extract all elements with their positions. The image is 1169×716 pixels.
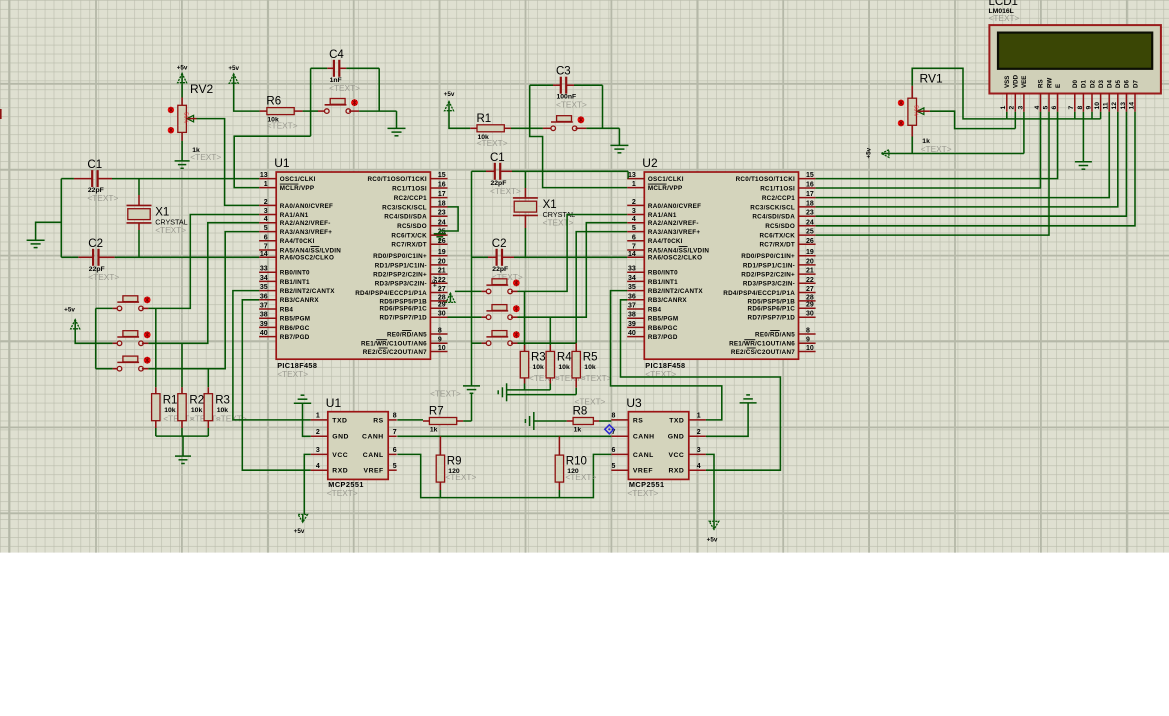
- svg-text:17: 17: [438, 191, 446, 198]
- svg-text:RD7/PSP7/P1D: RD7/PSP7/P1D: [748, 315, 796, 322]
- resistor R7 1k: [429, 406, 457, 434]
- capacitor C1 22pF (U2): [490, 152, 521, 196]
- svg-text:RD0/PSP0/C1IN+: RD0/PSP0/C1IN+: [741, 253, 795, 260]
- svg-text:D4: D4: [1107, 80, 1114, 88]
- microcontroller U2 PIC18F458 pin 18 RC3/SCK/SCL: [750, 200, 815, 211]
- microcontroller U1 PIC18F458 pin 23 RC4/SDI/SDA: [384, 210, 447, 221]
- svg-text:+5v: +5v: [866, 147, 873, 158]
- svg-text:OSC1/CLKI: OSC1/CLKI: [648, 176, 684, 183]
- CAN transceiver U3 MCP2551 pin 7 CANH: [611, 429, 654, 441]
- svg-text:MCLR/VPP: MCLR/VPP: [280, 185, 315, 192]
- microcontroller U1 PIC18F458 pin 33 RB0/INT0: [259, 266, 310, 277]
- R1 top lead: [155, 308, 157, 393]
- svg-text:4: 4: [697, 463, 701, 470]
- wire MCP U1 RS to R7: [397, 419, 423, 421]
- microcontroller U1 PIC18F458 pin 30 RD7/PSP7/P1D: [379, 311, 447, 322]
- svg-text:D1: D1: [1081, 80, 1088, 88]
- wire button3 to U1 RA3: [142, 232, 259, 369]
- svg-text:C2: C2: [492, 238, 507, 250]
- svg-text:3: 3: [316, 447, 320, 454]
- RV1 top pin wire to LCD VSS: [912, 68, 1007, 119]
- R7 left pin: [423, 420, 429, 422]
- microcontroller U2 PIC18F458 pin 19 RD0/PSP0/C1IN+: [741, 249, 815, 260]
- CAN transceiver U1 MCP2551 pin 1 TXD: [311, 413, 348, 425]
- svg-text:35: 35: [628, 284, 636, 291]
- svg-text:RB4: RB4: [280, 306, 294, 313]
- wire LCD RW to U2 RC6: [816, 112, 1049, 235]
- svg-text:29: 29: [438, 302, 446, 309]
- svg-text:10k: 10k: [584, 364, 596, 371]
- svg-text:RD3/PSP3/C2IN-: RD3/PSP3/C2IN-: [743, 281, 795, 288]
- svg-text:U1: U1: [274, 156, 290, 170]
- svg-text:RD1/PSP1/C1IN-: RD1/PSP1/C1IN-: [375, 262, 427, 269]
- microcontroller U2 PIC18F458 pin 7 RA5/AN4/SS/LVDIN: [627, 244, 709, 255]
- microcontroller U2 PIC18F458 pin 23 RC4/SDI/SDA: [752, 210, 815, 221]
- svg-text:14: 14: [628, 251, 636, 258]
- svg-text:28: 28: [806, 294, 814, 301]
- svg-text:35: 35: [260, 284, 268, 291]
- ground at U1 oscillator: [27, 239, 45, 241]
- svg-text:RE1/WR/C1OUT/AN6: RE1/WR/C1OUT/AN6: [729, 341, 795, 348]
- svg-text:+5v: +5v: [432, 276, 439, 287]
- LCD1 pin 4 RS: [1034, 79, 1045, 111]
- svg-text:RC5/SDO: RC5/SDO: [397, 223, 427, 230]
- microcontroller U2 PIC18F458 pin 16 RC1/T1OSI: [760, 182, 815, 193]
- wire U1 RD7 to U2 button2: [448, 316, 487, 318]
- C4 right lead: [339, 67, 379, 69]
- svg-text:20: 20: [438, 258, 446, 265]
- wire U2 reset button right to ground: [576, 127, 620, 129]
- RV1 value label: [921, 138, 952, 154]
- microcontroller U2 PIC18F458 pin 9 RE1/WR/C1OUT/AN6: [729, 337, 816, 348]
- power terminal +5v at U1 RD5: [432, 276, 455, 303]
- CAN transceiver U3 MCP2551 pin 1 TXD: [669, 413, 706, 425]
- wire U2 CANRX to U3 RXD: [621, 300, 781, 470]
- microcontroller U1 PIC18F458 pin 21 RD2/PSP2/C2IN+: [373, 268, 447, 279]
- svg-text:+5v: +5v: [444, 91, 455, 98]
- microcontroller U1 PIC18F458 pin 6 RA4/T0CKI: [259, 234, 314, 245]
- svg-text:19: 19: [806, 249, 814, 256]
- push button U2 input 1: [486, 279, 519, 294]
- svg-text:28: 28: [438, 294, 446, 301]
- push button U1 input 3: [117, 356, 150, 371]
- ground above U3: [740, 402, 757, 404]
- svg-text:8: 8: [611, 413, 615, 420]
- svg-text:<TEXT>: <TEXT>: [565, 472, 596, 482]
- microcontroller U2 PIC18F458 pin 33 RB0/INT0: [627, 266, 678, 277]
- wire LCD VDD down: [1014, 112, 1016, 129]
- wire rail to button 1: [96, 307, 117, 309]
- wire button2 to U1 RA2: [142, 223, 259, 344]
- svg-text:RC5/SDO: RC5/SDO: [765, 223, 795, 230]
- svg-text:LCD1: LCD1: [989, 0, 1018, 8]
- svg-text:RA5/AN4/SS/LVDIN: RA5/AN4/SS/LVDIN: [280, 247, 341, 254]
- R2 top lead: [181, 343, 183, 393]
- wire +5v down to R1: [449, 111, 470, 129]
- microcontroller U2 PIC18F458 pin 37 RB4: [627, 303, 661, 314]
- microcontroller U1 PIC18F458 pin 36 RB3/CANRX: [259, 293, 319, 304]
- svg-text:RD3/PSP3/C2IN-: RD3/PSP3/C2IN-: [375, 281, 427, 288]
- svg-text:RB0/INT0: RB0/INT0: [648, 270, 678, 277]
- power terminal +5v at RV1: [866, 147, 889, 158]
- svg-text:RC3/SCK/SCL: RC3/SCK/SCL: [382, 204, 427, 211]
- LCD1 LM016L display body: [989, 0, 1161, 93]
- svg-text:22: 22: [806, 277, 814, 284]
- svg-text:R10: R10: [566, 455, 587, 467]
- X1 top pin wire: [138, 179, 140, 206]
- power terminal +5v at U1 buttons: [64, 307, 80, 329]
- ground under LCD D1: [1075, 161, 1092, 163]
- microcontroller U1 PIC18F458 pin 38 RB5/PGM: [259, 312, 310, 323]
- svg-text:<TEXT>: <TEXT>: [190, 152, 221, 162]
- svg-text:C4: C4: [329, 49, 344, 61]
- wire U2 button3 to R5: [511, 342, 576, 344]
- microcontroller U1 PIC18F458 pin 26 RC7/RX/DT: [391, 238, 447, 249]
- svg-text:13: 13: [628, 172, 636, 179]
- svg-text:<TEXT>: <TEXT>: [329, 83, 360, 93]
- svg-text:27: 27: [438, 286, 446, 293]
- power terminal +5v at RV2: [177, 65, 188, 83]
- svg-text:RD6/PSP6/P1C: RD6/PSP6/P1C: [748, 306, 796, 313]
- svg-text:D0: D0: [1072, 80, 1079, 88]
- svg-text:1: 1: [1000, 106, 1007, 110]
- svg-text:<TEXT>: <TEXT>: [556, 100, 587, 110]
- ground under pulldowns: [175, 455, 191, 457]
- LCD1 pin 5 RW: [1042, 78, 1053, 112]
- CAN transceiver U1 MCP2551 pin 4 RXD: [311, 463, 348, 475]
- wire LCD VSS D0-D3 rail: [1007, 118, 1101, 120]
- crystal X1: [127, 205, 188, 235]
- ground at U2 reset: [610, 144, 628, 146]
- R3 top lead: [207, 369, 209, 394]
- svg-text:RB2/INT2/CANTX: RB2/INT2/CANTX: [648, 288, 703, 295]
- svg-text:RC7/RX/DT: RC7/RX/DT: [391, 242, 427, 249]
- microcontroller U1 PIC18F458 pin 25 RC6/TX/CK: [391, 229, 447, 240]
- R9 top lead: [439, 436, 441, 455]
- microcontroller U2 PIC18F458 pin 17 RC2/CCP1: [762, 191, 816, 202]
- svg-text:RC1/T1OSI: RC1/T1OSI: [392, 185, 427, 192]
- C1 right lead wire to U1 OSC1: [98, 178, 260, 180]
- wire LCD D4 to U2 RC2: [816, 112, 1110, 198]
- svg-text:+5v: +5v: [707, 537, 718, 544]
- wire +5v to RV2 top: [181, 83, 183, 98]
- wire LCD D3 down: [1100, 112, 1102, 119]
- ground rotated at U2 pulldowns: [498, 383, 506, 401]
- svg-text:CANH: CANH: [633, 434, 655, 441]
- wire button right to C4 right and ground: [349, 110, 397, 112]
- push button U1 input 1: [117, 296, 150, 311]
- wire +5v to U2 button1: [455, 290, 486, 292]
- svg-text:14: 14: [1128, 102, 1135, 110]
- wire U1 RC3 to ground: [440, 207, 458, 231]
- svg-text:RD6/PSP6/P1C: RD6/PSP6/P1C: [379, 306, 427, 313]
- svg-text:D5: D5: [1115, 80, 1122, 88]
- microcontroller U2 PIC18F458 pin 10 RE2/CS/C2OUT/AN7: [731, 345, 816, 356]
- sheet left margin line: [8, 0, 10, 553]
- svg-text:6: 6: [632, 234, 636, 241]
- svg-text:U3: U3: [626, 396, 642, 410]
- CAN transceiver U3 MCP2551 pin 5 VREF: [611, 463, 653, 475]
- potentiometer RV2 1k: [168, 82, 214, 133]
- wire LCD VEE down: [1023, 112, 1025, 154]
- svg-text:22: 22: [438, 277, 446, 284]
- wire U2 button2 to U2 RA2: [511, 223, 627, 318]
- svg-text:39: 39: [628, 321, 636, 328]
- resistor R1 10k: [152, 394, 178, 421]
- svg-text:RC3/SCK/SCL: RC3/SCK/SCL: [750, 204, 795, 211]
- microcontroller U1 PIC18F458 pin 4 RA2/AN2/VREF-: [259, 216, 331, 227]
- svg-text:26: 26: [806, 238, 814, 245]
- LCD1 pin 1 VSS: [1000, 76, 1011, 112]
- svg-text:4: 4: [1034, 106, 1041, 110]
- svg-text:10k: 10k: [558, 364, 570, 371]
- wire +5v down to R6: [234, 83, 260, 111]
- LCD1 pin 13 D6: [1120, 80, 1131, 112]
- svg-text:3: 3: [264, 208, 268, 215]
- svg-text:3: 3: [632, 208, 636, 215]
- LCD1 pin 3 VEE: [1017, 76, 1028, 112]
- microcontroller U2 PIC18F458 pin 36 RB3/CANRX: [627, 293, 687, 304]
- microcontroller U1 PIC18F458 pin 19 RD0/PSP0/C1IN+: [373, 249, 447, 260]
- RV1 wiper wire to LCD VDD: [917, 108, 1016, 129]
- svg-text:RB2/INT2/CANTX: RB2/INT2/CANTX: [280, 288, 335, 295]
- R10 bottom lead: [558, 482, 560, 498]
- svg-text:GND: GND: [668, 434, 685, 441]
- svg-text:10k: 10k: [533, 364, 545, 371]
- svg-text:10: 10: [438, 345, 446, 352]
- potentiometer RV1 1k: [898, 72, 943, 127]
- R1 bottom lead: [155, 421, 157, 436]
- svg-text:9: 9: [806, 337, 810, 344]
- svg-text:RA6/OSC2/CLKO: RA6/OSC2/CLKO: [648, 255, 702, 262]
- resistor R3 10k: [204, 394, 230, 421]
- capacitor C3 100nF: [556, 66, 587, 110]
- wire rail to U2 button3: [472, 342, 487, 344]
- svg-text:15: 15: [806, 172, 814, 179]
- microcontroller U2 PIC18F458 pin 8 RE0/RD/AN5: [755, 328, 816, 339]
- svg-text:R3: R3: [215, 394, 230, 406]
- svg-text:40: 40: [628, 330, 636, 337]
- svg-text:RC2/CCP1: RC2/CCP1: [762, 195, 795, 202]
- svg-text:39: 39: [260, 321, 268, 328]
- wire rail to button 2: [96, 342, 117, 344]
- LCD1 pin 9 D2: [1085, 80, 1096, 112]
- svg-text:<TEXT>: <TEXT>: [88, 272, 119, 282]
- svg-text:23: 23: [438, 210, 446, 217]
- svg-text:RS: RS: [373, 417, 383, 424]
- svg-text:10: 10: [806, 345, 814, 352]
- svg-text:RC6/TX/CK: RC6/TX/CK: [391, 233, 427, 240]
- wire +5v stem to button row 2: [75, 329, 96, 344]
- svg-text:<TEXT>: <TEXT>: [87, 193, 118, 203]
- svg-text:RW: RW: [1046, 78, 1053, 88]
- svg-text:RB4: RB4: [648, 306, 662, 313]
- microcontroller U1 PIC18F458 pin 22 RD3/PSP3/C2IN-: [375, 277, 448, 288]
- svg-text:29: 29: [806, 302, 814, 309]
- LCD1 pin 12 D5: [1111, 80, 1122, 112]
- CAN transceiver U1 MCP2551 body: [326, 396, 388, 498]
- svg-text:VCC: VCC: [332, 452, 348, 459]
- svg-text:38: 38: [260, 312, 268, 319]
- svg-text:RD4/PSP4/ECCP1/P1A: RD4/PSP4/ECCP1/P1A: [723, 290, 795, 297]
- svg-text:4: 4: [316, 463, 320, 470]
- wire LCD D2 down: [1091, 112, 1093, 119]
- ground at U1 reset: [388, 127, 406, 129]
- svg-text:RC4/SDI/SDA: RC4/SDI/SDA: [752, 214, 795, 221]
- push button U2 input 2: [486, 305, 519, 320]
- svg-text:RC6/TX/CK: RC6/TX/CK: [760, 233, 796, 240]
- resistor R5 10k (U2): [572, 351, 598, 378]
- X1 bottom pin wire: [138, 223, 140, 257]
- microcontroller U2 PIC18F458 pin 38 RB5/PGM: [627, 312, 678, 323]
- svg-text:R1: R1: [477, 113, 492, 125]
- svg-text:RD5/PSP5/P1B: RD5/PSP5/P1B: [748, 298, 796, 305]
- svg-text:7: 7: [1068, 106, 1075, 110]
- microcontroller U1 PIC18F458 pin 34 RB1/INT1: [259, 275, 310, 286]
- microcontroller U1 PIC18F458 pin 5 RA3/AN3/VREF+: [259, 225, 332, 236]
- svg-text:1: 1: [632, 181, 636, 188]
- R8 right pin to U3 RS: [593, 420, 611, 422]
- svg-text:24: 24: [806, 219, 814, 226]
- svg-text:<TEXT>: <TEXT>: [575, 397, 606, 407]
- svg-text:RA2/AN2/VREF-: RA2/AN2/VREF-: [648, 220, 699, 227]
- svg-text:2: 2: [632, 199, 636, 206]
- push button U2 input 3: [486, 331, 519, 346]
- svg-text:RB6/PGC: RB6/PGC: [280, 325, 310, 332]
- microcontroller U1 PIC18F458 pin 29 RD6/PSP6/P1C: [379, 302, 447, 313]
- microcontroller U2 PIC18F458 pin 4 RA2/AN2/VREF-: [627, 216, 699, 227]
- U2 C2 left lead: [472, 256, 497, 258]
- svg-text:R8: R8: [573, 406, 588, 418]
- svg-text:<TEXT>: <TEXT>: [543, 217, 574, 227]
- microcontroller U1 PIC18F458 pin 1 MCLR/VPP: [259, 181, 314, 192]
- svg-text:RC0/T1OSO/T1CKI: RC0/T1OSO/T1CKI: [736, 176, 795, 183]
- microcontroller U1 PIC18F458 pin 16 RC1/T1OSI: [392, 182, 447, 193]
- resistor R8 1k: [573, 406, 594, 434]
- svg-text:<TEXT>: <TEXT>: [277, 369, 308, 379]
- svg-text:RD2/PSP2/C2IN+: RD2/PSP2/C2IN+: [373, 272, 427, 279]
- wire R3 R4 bottoms to ground: [507, 389, 551, 391]
- CAN transceiver U1 MCP2551 pin 2 GND: [311, 429, 349, 441]
- CANL wire from MCP U1: [397, 454, 611, 497]
- svg-text:1: 1: [316, 413, 320, 420]
- svg-text:RC7/RX/DT: RC7/RX/DT: [760, 242, 796, 249]
- svg-text:36: 36: [260, 293, 268, 300]
- wire C1-C2 left rail: [60, 179, 62, 258]
- svg-text:1: 1: [697, 413, 701, 420]
- svg-text:2: 2: [264, 199, 268, 206]
- power terminal +5v at R6: [228, 65, 239, 83]
- CAN transceiver U3 MCP2551 pin 6 CANL: [611, 447, 653, 459]
- svg-text:13: 13: [1120, 102, 1127, 110]
- svg-text:14: 14: [260, 251, 268, 258]
- U2 C1 right lead wire to U2 OSC1: [500, 170, 628, 172]
- microcontroller U1 PIC18F458 pin 15 RC0/T1OSO/T1CKI: [368, 172, 448, 183]
- microcontroller U2 PIC18F458 pin 29 RD6/PSP6/P1C: [748, 302, 816, 313]
- svg-text:<TEXT>: <TEXT>: [921, 144, 952, 154]
- LCD1 pin 11 D4: [1103, 80, 1114, 112]
- svg-text:RA5/AN4/SS/LVDIN: RA5/AN4/SS/LVDIN: [648, 247, 709, 254]
- svg-text:<TEXT>: <TEXT>: [267, 121, 298, 131]
- microcontroller U1 PIC18F458 pin 39 RB6/PGC: [259, 321, 310, 332]
- svg-text:<TEXT>: <TEXT>: [581, 373, 612, 383]
- microcontroller U2 PIC18F458 pin 21 RD2/PSP2/C2IN+: [741, 268, 815, 279]
- svg-text:20: 20: [806, 258, 814, 265]
- svg-text:RV1: RV1: [920, 72, 943, 86]
- svg-text:D7: D7: [1132, 80, 1139, 88]
- svg-text:RC2/CCP1: RC2/CCP1: [394, 195, 427, 202]
- RV2 value label: [190, 147, 221, 162]
- svg-text:R7: R7: [429, 406, 444, 418]
- svg-text:38: 38: [628, 312, 636, 319]
- wire U2 button1 to U2 RA1: [511, 215, 627, 292]
- svg-text:R1: R1: [163, 394, 178, 406]
- svg-text:33: 33: [628, 266, 636, 273]
- wire down to ground at U2 reset: [618, 128, 620, 145]
- svg-text:17: 17: [806, 191, 814, 198]
- svg-text:RB3/CANRX: RB3/CANRX: [648, 297, 688, 304]
- ground on U2 rail above R7: [463, 385, 480, 387]
- svg-text:<TEXT>: <TEXT>: [490, 186, 521, 196]
- microcontroller U1 PIC18F458 pin 3 RA1/AN1: [259, 208, 309, 219]
- svg-text:RD4/PSP4/ECCP1/P1A: RD4/PSP4/ECCP1/P1A: [355, 290, 427, 297]
- microcontroller U2 PIC18F458 pin 22 RD3/PSP3/C2IN-: [743, 277, 816, 288]
- resistor R2 10k: [178, 394, 204, 421]
- wire LCD VSS down: [1006, 112, 1008, 119]
- microcontroller U2 PIC18F458 pin 28 RD5/PSP5/P1B: [748, 294, 816, 305]
- U2 R5 top lead: [575, 343, 577, 351]
- U2 R3 top lead from button1 row: [524, 291, 526, 351]
- ground at U1 RC3: [434, 234, 446, 240]
- resistor R6 10k: [266, 96, 294, 124]
- U2 X1 top pin wire: [524, 171, 526, 198]
- svg-text:<TEXT>: <TEXT>: [430, 388, 461, 398]
- svg-text:D3: D3: [1098, 80, 1105, 88]
- svg-text:+5v: +5v: [294, 528, 305, 535]
- svg-text:RXD: RXD: [332, 468, 348, 475]
- wire LCD D5 to U2 RC3: [816, 112, 1118, 207]
- R2 bottom lead: [181, 421, 183, 436]
- microcontroller U2 PIC18F458 pin 5 RA3/AN3/VREF+: [627, 225, 700, 236]
- microcontroller U1 PIC18F458 pin 37 RB4: [259, 303, 293, 314]
- U2 R1 right pin wire to reset button: [504, 127, 550, 129]
- wire U2 CANTX to U3 TXD: [611, 291, 722, 420]
- svg-text:C3: C3: [556, 66, 571, 78]
- svg-text:RD7/PSP7/P1D: RD7/PSP7/P1D: [379, 315, 427, 322]
- svg-text:C1: C1: [490, 152, 505, 164]
- microcontroller U2 PIC18F458 pin 24 RC5/SDO: [765, 219, 815, 230]
- LCD1 pin 14 D7: [1128, 80, 1139, 112]
- wire button left rail: [95, 308, 97, 368]
- svg-text:7: 7: [632, 244, 636, 251]
- U2 R4 top lead from button2 row: [549, 317, 551, 351]
- wire U1 RB2 CANTX to MCP U1 TXD: [233, 291, 311, 420]
- CAN transceiver U3 MCP2551 pin 2 GND: [668, 429, 706, 441]
- svg-text:VREF: VREF: [633, 468, 653, 475]
- svg-text:30: 30: [438, 311, 446, 318]
- svg-text:RD5/PSP5/P1B: RD5/PSP5/P1B: [379, 298, 427, 305]
- LCD1 pin 2 VDD: [1009, 74, 1020, 111]
- svg-text:<TEXT>: <TEXT>: [627, 488, 658, 498]
- svg-text:TXD: TXD: [669, 417, 684, 424]
- svg-text:<TEXT>: <TEXT>: [327, 488, 358, 498]
- U2 R5 bottom lead: [575, 378, 577, 395]
- microcontroller U2 PIC18F458 pin 39 RB6/PGC: [627, 321, 678, 332]
- svg-text:RC1/T1OSI: RC1/T1OSI: [760, 185, 795, 192]
- svg-text:6: 6: [1051, 106, 1058, 110]
- svg-text:D6: D6: [1124, 80, 1131, 88]
- CAN transceiver U3 MCP2551 pin 3 VCC: [668, 447, 705, 459]
